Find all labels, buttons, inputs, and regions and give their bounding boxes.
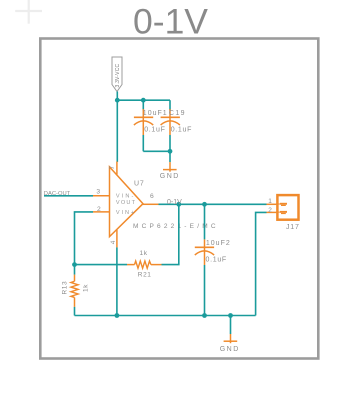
wire J17 pin2 riser [256,212,267,315]
capacitor 10uF1 [134,100,168,151]
resistor R13 1k [62,275,90,307]
wire pin4 to bus [116,247,118,315]
svg-text:2: 2 [268,207,272,214]
wire ground bus [75,315,256,317]
resistor R21 1k [127,250,162,278]
svg-text:6: 6 [150,193,154,200]
svg-text:VIN+: VIN+ [116,210,136,216]
junction pin4 ground [115,313,120,318]
svg-text:0.1uF: 0.1uF [206,257,227,264]
svg-text:3.3V-VCC: 3.3V-VCC [115,63,121,87]
junction C20 bottom [202,313,207,318]
svg-text:1k: 1k [83,284,90,292]
capacitor 10uF2 [195,204,231,265]
ground GND1 [160,162,180,180]
ground GND2 [220,334,240,353]
junction supply node [115,98,120,103]
svg-text:0-1V: 0-1V [167,199,182,206]
supply flag 3.3V-VCC [112,57,122,92]
svg-text:1k: 1k [140,250,148,257]
wire DAC-OUT [44,195,93,197]
svg-text:1: 1 [268,198,272,205]
junction GND2 [228,313,233,318]
svg-text:0.1uF: 0.1uF [171,126,192,133]
wire GND2 stem [230,316,232,335]
svg-text:GND: GND [220,346,240,353]
svg-text:4: 4 [110,240,117,244]
op-amp U7 [93,162,219,248]
svg-text:C19: C19 [169,110,186,117]
svg-text:10uF1: 10uF1 [143,110,168,117]
svg-text:10uF2: 10uF2 [206,240,231,247]
wire R13 bottom [74,307,76,316]
svg-text:3: 3 [96,188,100,195]
wire to R21 [75,264,128,266]
svg-text:J17: J17 [286,224,300,231]
capacitor C19 [161,100,193,151]
junction cap bottom [168,149,173,154]
svg-text:U7: U7 [134,181,145,188]
wire V+ vertical [116,100,118,162]
wire feedback [162,204,179,264]
wire to GND1 [169,151,171,162]
svg-text:VIN-: VIN- [116,194,136,200]
svg-text:R21: R21 [138,271,152,278]
wire R13 top [74,265,76,275]
connector J17 [267,195,300,231]
svg-text:7: 7 [109,166,116,170]
svg-text:R13: R13 [62,281,69,295]
wire inverting input [75,212,94,265]
svg-text:GND: GND [160,173,180,180]
svg-text:0.1uF: 0.1uF [144,126,165,133]
wire supply horizontal [117,99,170,101]
junction C20 top [202,202,207,207]
wire C20 bottom [204,265,206,316]
junction C18 top [141,98,146,103]
svg-text:MCP6221-E/MC: MCP6221-E/MC [133,223,219,230]
svg-text:0-1V: 0-1V [133,2,208,42]
junction inverting node [72,262,77,267]
wire cap bottoms [143,150,170,152]
wire output [159,203,267,205]
svg-text:2: 2 [97,206,101,213]
wire supply stub [116,92,118,101]
junction feedback [176,202,181,207]
svg-text:VOUT: VOUT [116,200,136,206]
